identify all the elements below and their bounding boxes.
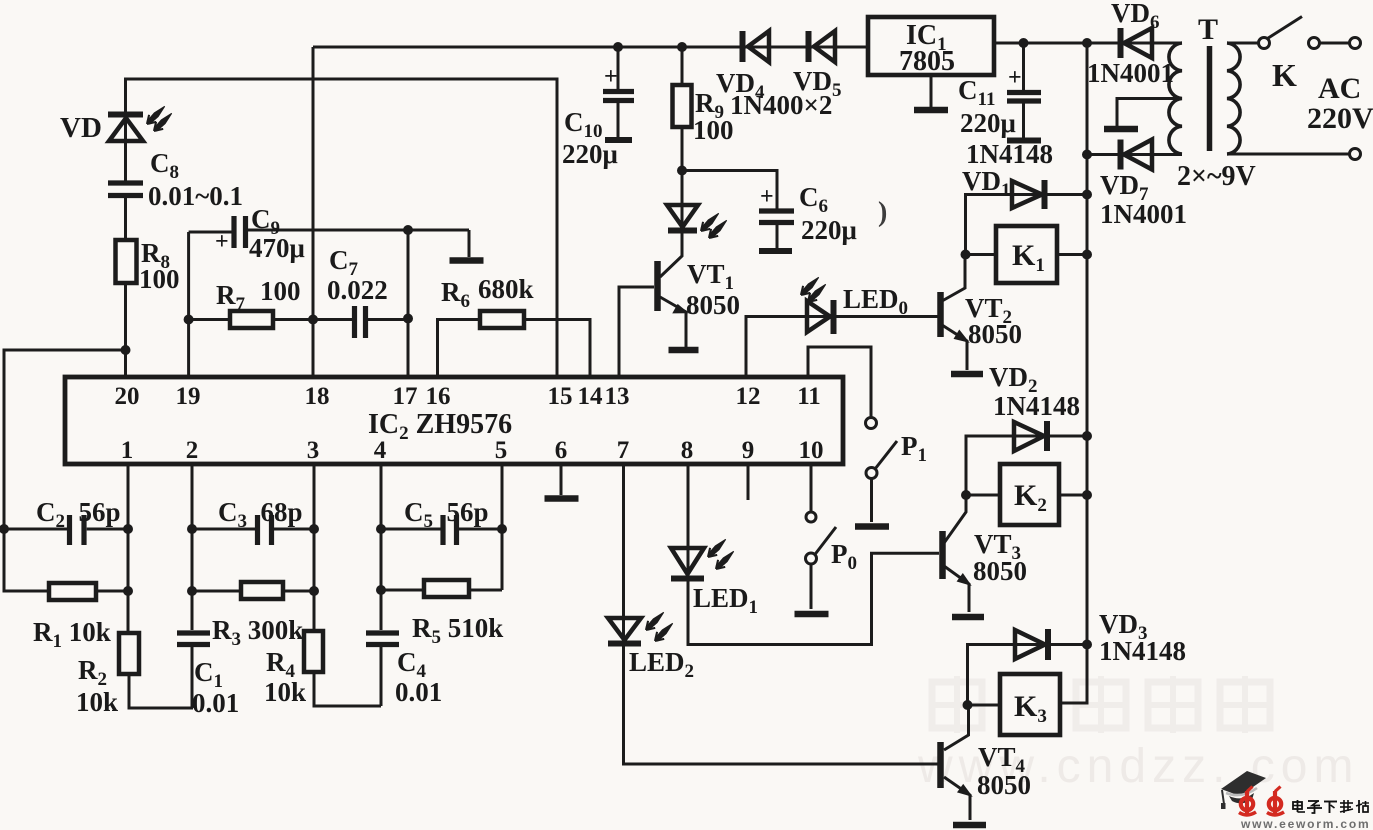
capacitor C1: [177, 633, 210, 645]
diode VD1: [1012, 180, 1045, 209]
label VT1 value: [686, 290, 740, 320]
pin 20 label: [115, 383, 140, 410]
label R6: [441, 277, 470, 312]
svg-text:220V: 220V: [1307, 102, 1373, 135]
wire K switch top: [1227, 42, 1350, 45]
label C4: [397, 647, 427, 682]
wire R6 right to pin 14: [524, 320, 590, 378]
capacitor C11 bottom bar: [1007, 138, 1041, 144]
svg-text:P0: P0: [831, 539, 857, 574]
transformer T secondary winding: [1169, 43, 1182, 154]
pin 17 label: [393, 383, 418, 410]
wire AC bottom: [1227, 153, 1350, 156]
label IC1 value: [899, 46, 955, 77]
svg-text:IC2 ZH9576: IC2 ZH9576: [368, 409, 512, 444]
pin 6 label: [555, 437, 568, 464]
diode VD3: [1015, 629, 1048, 660]
label T: [1198, 13, 1218, 46]
svg-text:220μ: 220μ: [960, 108, 1016, 138]
wire pin 8 to LED1: [687, 464, 690, 579]
label LED0: [843, 284, 908, 319]
pin 9 label: [742, 437, 755, 464]
label C11: [958, 75, 995, 110]
svg-text:+: +: [760, 184, 774, 210]
switch K contact right: [1309, 38, 1320, 49]
wire C9 ground stub: [468, 230, 471, 257]
logo site name: [1293, 800, 1369, 813]
svg-text:3: 3: [307, 437, 320, 464]
svg-text:www.eeworm.com: www.eeworm.com: [1240, 817, 1370, 830]
wire C3 rail: [192, 528, 314, 531]
resistor R6: [480, 311, 524, 328]
svg-text:680k: 680k: [478, 274, 534, 304]
switch P0 contact bottom: [806, 553, 817, 564]
terminal AC bottom: [1350, 149, 1361, 160]
pin 14 label: [578, 383, 604, 410]
ground P0: [795, 611, 829, 618]
wire top +12V rail left of IC1: [313, 46, 868, 49]
label VT4 value: [977, 770, 1031, 800]
svg-text:2×~9V: 2×~9V: [1177, 161, 1256, 192]
label LED1: [693, 583, 758, 618]
label R5: [412, 613, 503, 648]
logo graduation cap: [1221, 771, 1266, 809]
capacitor C9: [234, 216, 246, 248]
svg-text:8050: 8050: [977, 770, 1031, 800]
label C8 value: [148, 181, 243, 211]
svg-text:17: 17: [393, 383, 418, 410]
label P1: [901, 431, 927, 466]
label R9: [695, 88, 724, 123]
capacitor C10 bottom bar: [605, 137, 632, 143]
LED1: [671, 539, 734, 578]
pin 11 label: [797, 383, 821, 410]
label K: [1272, 57, 1297, 93]
wire VT4 collector: [944, 705, 969, 750]
label C6 value: [801, 215, 857, 245]
capacitor C6: [759, 211, 794, 223]
label C6: [799, 182, 828, 217]
resistor R9: [673, 85, 692, 127]
label VD1 value: [966, 139, 1053, 169]
ground near pin 17 rail: [450, 257, 484, 264]
label 2x9V: [1177, 161, 1256, 192]
svg-text:8050: 8050: [686, 290, 740, 320]
label AC: [1318, 72, 1361, 105]
wire P0 to ground: [810, 564, 813, 609]
svg-text:10: 10: [799, 437, 824, 464]
svg-text:C11: C11: [958, 75, 995, 110]
wire C11 bottom: [1022, 103, 1025, 138]
wire K3 left row: [968, 704, 1001, 707]
svg-text:LED1: LED1: [693, 583, 758, 618]
label C1 value: [192, 688, 239, 718]
svg-text:C10: C10: [564, 107, 603, 142]
svg-text:C3 68p: C3 68p: [218, 497, 303, 532]
svg-text:LED0: LED0: [843, 284, 908, 319]
svg-text:R7: R7: [216, 280, 246, 315]
svg-text:220μ: 220μ: [801, 215, 857, 245]
resistor R5: [424, 580, 469, 597]
ground center tap: [1104, 126, 1138, 133]
transistor VT2: [941, 292, 969, 342]
switch P0 contact top: [806, 512, 816, 522]
wire C2 rail: [87, 528, 128, 531]
label C5: [404, 497, 489, 532]
svg-text:LED2: LED2: [629, 647, 694, 682]
label C4 value: [395, 677, 442, 707]
wire R4 bottom: [314, 672, 381, 706]
svg-text:R5 510k: R5 510k: [412, 613, 503, 648]
label C6 plus: [760, 184, 774, 210]
pin 5 label: [495, 437, 508, 464]
wire R5 row: [381, 589, 502, 592]
pin 10 label: [799, 437, 824, 464]
capacitor C10: [603, 92, 634, 101]
label VT3: [974, 529, 1021, 564]
svg-text:P1: P1: [901, 431, 927, 466]
switch K arm: [1268, 17, 1303, 39]
label VD5: [793, 66, 842, 101]
wire VD-C8: [124, 114, 127, 181]
pin 7 label: [617, 437, 630, 464]
ground pin6: [545, 495, 579, 502]
wire K2 row: [966, 494, 1087, 497]
wire R9 to LED: [681, 171, 684, 232]
wire C8-R8: [124, 198, 127, 240]
capacitor C7: [355, 306, 366, 338]
pin 8 label: [681, 437, 694, 464]
label VT2: [965, 293, 1012, 328]
watermark glyph row: [932, 676, 1270, 733]
label VD3: [1099, 609, 1148, 644]
pin 18 label: [305, 383, 330, 410]
label R3: [212, 615, 303, 650]
label K1: [1012, 239, 1045, 276]
logo site url: [1240, 817, 1370, 830]
switch P0 arm: [815, 527, 837, 555]
svg-text:16: 16: [426, 383, 451, 410]
label IC1: [906, 20, 947, 55]
svg-text:): ): [878, 197, 887, 228]
label VD7 value: [1100, 199, 1187, 229]
pin 16 label: [426, 383, 451, 410]
capacitor C3: [258, 515, 272, 545]
resistor R3: [241, 582, 283, 599]
svg-text:20: 20: [115, 383, 140, 410]
wire C4 bottom: [380, 645, 383, 706]
label VD7: [1100, 170, 1149, 205]
wire pin 18 vertical to top rail: [312, 47, 315, 377]
wire feedback left loop: [4, 350, 126, 591]
svg-text:0.01~0.1: 0.01~0.1: [148, 181, 243, 211]
capacitor C2: [70, 515, 85, 545]
wire second rail from VD to pin 15: [126, 79, 558, 377]
svg-text:C1: C1: [194, 657, 223, 692]
wire pin 11 to P1: [808, 347, 871, 417]
svg-text:1N400×2: 1N400×2: [730, 90, 832, 120]
wire C2 rail left: [4, 528, 67, 531]
svg-text:1N4148: 1N4148: [966, 139, 1053, 169]
wire VT3 collector: [944, 495, 966, 543]
diode VD4: [743, 31, 770, 62]
label R7: [216, 280, 246, 315]
svg-text:R6: R6: [441, 277, 470, 312]
label VT4: [978, 742, 1026, 777]
svg-text:1N4001: 1N4001: [1100, 199, 1187, 229]
label R1: [33, 617, 111, 652]
svg-text:C6: C6: [799, 182, 828, 217]
svg-text:100: 100: [139, 264, 180, 294]
wire pin 19 vertical: [187, 232, 190, 377]
label VD: [60, 112, 102, 144]
capacitor C6 bottom bar: [759, 248, 792, 254]
pin 19 label: [176, 383, 201, 410]
svg-text:8050: 8050: [968, 319, 1022, 349]
wire R7 row: [189, 318, 313, 321]
wire LED2 to VT4 base: [624, 644, 940, 764]
svg-text:15: 15: [548, 383, 573, 410]
ground P1: [855, 523, 889, 530]
pin 12 label: [736, 383, 761, 410]
ground VT1: [669, 347, 699, 354]
logo red bug 2: [1267, 787, 1284, 815]
svg-text:1: 1: [121, 437, 134, 464]
resistor R4: [304, 631, 323, 672]
switch P1 contact top: [866, 418, 877, 429]
LED0: [801, 277, 834, 334]
relay K1: [996, 226, 1057, 283]
label R8 value: [139, 264, 180, 294]
svg-text:470μ: 470μ: [249, 233, 305, 263]
wire main right vertical: [1060, 43, 1087, 703]
wire VT3 emitter: [944, 566, 969, 612]
wire VD6 through: [994, 42, 1182, 45]
wire VD3 row: [968, 645, 1088, 706]
transistor VT1: [658, 261, 688, 313]
svg-text:VD1: VD1: [962, 166, 1011, 201]
svg-text:1N4148: 1N4148: [993, 391, 1080, 421]
wire pin 4 column: [380, 464, 383, 630]
svg-text:0.01: 0.01: [192, 688, 239, 718]
wire VD1 row: [966, 195, 1088, 255]
label K2: [1014, 479, 1047, 516]
wire VT1 LED to collector: [660, 231, 682, 277]
wire VT1 base to pin 13: [619, 287, 654, 377]
wire C1 bottom: [191, 645, 194, 708]
label R6 value: [478, 274, 534, 304]
svg-text:11: 11: [797, 383, 821, 410]
label R7 value: [260, 276, 301, 306]
capacitor C4: [366, 633, 399, 645]
svg-text:T: T: [1198, 13, 1218, 46]
wire C9 row: [189, 230, 469, 232]
svg-text:12: 12: [736, 383, 761, 410]
relay K2: [1000, 464, 1059, 525]
label C10 value: [562, 139, 618, 169]
wire K1 row: [966, 253, 1088, 256]
svg-text:8050: 8050: [973, 556, 1027, 586]
svg-text:14: 14: [578, 383, 604, 410]
diode VD5: [809, 31, 836, 62]
stray mark: [878, 197, 887, 228]
pin 13 label: [605, 383, 630, 410]
label R4: [266, 647, 296, 682]
label LED2: [629, 647, 694, 682]
wire pin 5 column: [501, 464, 504, 590]
transistor VT3: [943, 531, 971, 585]
svg-text:+: +: [215, 229, 229, 255]
svg-text:+: +: [604, 64, 618, 90]
transformer T core: [1207, 46, 1213, 151]
label C9 plus: [215, 229, 229, 255]
svg-text:10k: 10k: [264, 677, 306, 707]
infrared LED at VT1: [667, 205, 727, 238]
svg-text:100: 100: [260, 276, 301, 306]
svg-text:5: 5: [495, 437, 508, 464]
label C11 value: [960, 108, 1016, 138]
wire R1-pin1: [96, 590, 128, 593]
wire pin 7 to LED2: [622, 464, 625, 644]
label R4 value: [264, 677, 306, 707]
wire C7 row: [313, 318, 408, 321]
label VD3 value: [1099, 636, 1186, 666]
svg-text:0.01: 0.01: [395, 677, 442, 707]
pin 1 label: [121, 437, 134, 464]
svg-text:1N4001: 1N4001: [1087, 58, 1174, 88]
label VD4 VD5 value: [730, 90, 832, 120]
resistor R7: [230, 311, 273, 328]
wire top rail right of IC1: [994, 42, 1182, 45]
label C8: [150, 148, 179, 183]
label VD6: [1111, 0, 1160, 33]
label C11 plus: [1008, 65, 1022, 91]
svg-text:19: 19: [176, 383, 201, 410]
wire LED0 row: [746, 317, 939, 378]
svg-text:220μ: 220μ: [562, 139, 618, 169]
svg-text:K: K: [1272, 57, 1297, 93]
label C7 value: [327, 275, 388, 305]
label K3: [1014, 690, 1047, 727]
resistor R8: [116, 240, 137, 283]
svg-text:13: 13: [605, 383, 630, 410]
wire C10 bottom: [617, 103, 620, 138]
label R9 value: [693, 115, 734, 145]
diode VD2: [1014, 421, 1047, 451]
ground VT4: [953, 822, 986, 829]
svg-text:2: 2: [186, 437, 199, 464]
wire pin 1 column: [127, 464, 130, 633]
wire IC1 ground stub: [930, 75, 933, 107]
wire pin 2 column: [191, 464, 194, 630]
switch P1 contact bottom: [866, 468, 877, 479]
op-amp U IC2 box: [65, 377, 843, 464]
wire pin 3 column: [313, 464, 316, 631]
relay K3: [1000, 674, 1060, 735]
label C10: [564, 107, 603, 142]
diode VD6: [1121, 28, 1153, 58]
label P0: [831, 539, 857, 574]
capacitor C8: [108, 183, 143, 196]
ground VT3: [952, 614, 984, 621]
wire R9 top: [681, 47, 684, 85]
wire VD2 row: [966, 436, 1087, 495]
wire R3 row: [192, 590, 314, 593]
switch K contact left: [1259, 38, 1270, 49]
label C7: [329, 245, 359, 280]
capacitor C11: [1007, 93, 1041, 102]
wire C5 rail: [381, 528, 502, 531]
capacitor C5: [443, 515, 457, 545]
wire C10 top: [617, 47, 620, 89]
ground IC1: [914, 107, 948, 114]
pin 3 label: [307, 437, 320, 464]
wire VT2 emitter: [942, 325, 967, 370]
switch P1 arm: [875, 441, 897, 469]
svg-text:6: 6: [555, 437, 568, 464]
wire C11 top: [1022, 43, 1025, 90]
svg-text:100: 100: [693, 115, 734, 145]
svg-text:7805: 7805: [899, 46, 955, 77]
svg-text:0.022: 0.022: [327, 275, 388, 305]
svg-text:C2 56p: C2 56p: [36, 497, 121, 532]
svg-text:8: 8: [681, 437, 694, 464]
diode VD7: [1121, 140, 1153, 170]
logo red bug 1: [1239, 787, 1256, 815]
label R8: [141, 238, 170, 273]
wire LED1 to VT3 base: [688, 553, 939, 644]
photodiode VD: [108, 106, 172, 141]
svg-text:+: +: [1008, 65, 1022, 91]
svg-text:R1 10k: R1 10k: [33, 617, 111, 652]
wire R2 bottom: [129, 674, 193, 708]
wire VD7 row: [1087, 153, 1182, 156]
wire pin 17 vertical: [407, 230, 410, 377]
svg-text:C8: C8: [150, 148, 179, 183]
LED2: [608, 612, 673, 643]
op-amp U IC1 box: [868, 17, 994, 75]
svg-text:7: 7: [617, 437, 630, 464]
transformer T primary winding: [1227, 43, 1240, 154]
transistor VT4: [941, 742, 972, 796]
label VD2: [989, 362, 1038, 397]
wire pin 9 stub: [747, 464, 750, 500]
label C9 value: [249, 233, 305, 263]
label R2: [78, 655, 107, 690]
wire pin 6 stub: [560, 464, 563, 495]
wire R6 left to pin 16: [438, 320, 481, 378]
label VT1: [687, 259, 734, 294]
svg-text:18: 18: [305, 383, 330, 410]
label VD6 value: [1087, 58, 1174, 88]
label C1: [194, 657, 223, 692]
svg-text:R2: R2: [78, 655, 107, 690]
wire branch to C6: [682, 171, 777, 210]
svg-text:4: 4: [374, 437, 387, 464]
svg-text:VT1: VT1: [687, 259, 734, 294]
pin 15 label: [548, 383, 573, 410]
label VT2 value: [968, 319, 1022, 349]
label C9: [251, 204, 280, 239]
resistor R2: [119, 633, 139, 674]
label VD2 value: [993, 391, 1080, 421]
svg-text:9: 9: [742, 437, 755, 464]
ground VT2: [951, 371, 983, 378]
watermark url: [917, 740, 1359, 793]
wire C6 bottom: [776, 223, 779, 249]
label 220V: [1307, 102, 1373, 135]
resistor R1: [49, 583, 96, 600]
